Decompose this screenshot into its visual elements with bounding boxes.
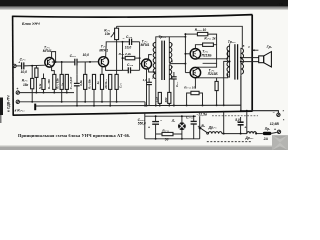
- wire R2-13 right: [199, 93, 202, 105]
- wire R2-8a to bus3: [109, 89, 111, 105]
- junction R2-16/bus1: [66, 92, 68, 94]
- bus1 wire: [20, 92, 74, 94]
- junction lamp bottom: [181, 138, 183, 140]
- resistor R2-13: [191, 91, 199, 94]
- capacitor C2-9: [146, 82, 152, 84]
- wire C2-5 left: [123, 69, 129, 71]
- resistor R under Tr right: [168, 92, 171, 103]
- junction C2-15/choke line: [240, 133, 242, 135]
- wire C2-9 to bus3: [148, 85, 150, 106]
- svg-text:10,0: 10,0: [21, 70, 28, 74]
- svg-text:R₂-₆ 68к: R₂-₆ 68к: [88, 78, 92, 88]
- svg-text:2: 2: [151, 76, 154, 80]
- transformer Tr2-1: [153, 41, 172, 80]
- wire T2-5 emitter to Tr2-2: [198, 63, 217, 68]
- svg-text:R₂-₉ 2,2к: R₂-₉ 2,2к: [119, 52, 132, 56]
- wire choke line: [222, 133, 247, 135]
- svg-text:Тр₂-₂: Тр₂-₂: [228, 40, 236, 44]
- junction C2-10 top: [155, 115, 157, 117]
- wire Tr2-1 primary top: [156, 37, 170, 42]
- wire R2-2 to bus1: [35, 77, 37, 92]
- svg-text:5,1к: 5,1к: [38, 83, 42, 89]
- junction sec/supply: [240, 110, 242, 112]
- wire R2-4 to bus2: [61, 89, 63, 101]
- wire Tr2-1 primary bottom to bus3: [155, 79, 157, 105]
- wire C2-11 top: [193, 116, 195, 121]
- top black scan band: [0, 0, 288, 7]
- pot arrow: [111, 32, 115, 37]
- svg-text:Принципиальная схема блока УНЧ: Принципиальная схема блока УНЧ приемника…: [18, 133, 130, 138]
- wire R2-1 to bus2: [31, 89, 33, 102]
- wire T2-3 collector to Tr2-1: [149, 68, 156, 72]
- resistor R2-1: [31, 78, 34, 88]
- paper background: [0, 0, 288, 150]
- junction R2-10/base line: [184, 33, 186, 35]
- wire R2-7 top from collector: [101, 67, 103, 74]
- left edge black scan mark: [0, 98, 3, 116]
- svg-text:R₂-₁₂: R₂-₁₂: [162, 128, 170, 132]
- potentiometer R2-8 volume: [115, 28, 119, 39]
- svg-text:С₂-₂ 0,047: С₂-₂ 0,047: [69, 76, 73, 89]
- wire T2-4 collector to Tr2-2: [198, 50, 228, 59]
- svg-text:Др₂-₂: Др₂-₂: [244, 136, 254, 140]
- vertical branch wire left of C2-4: [122, 42, 124, 71]
- junction Tr2-2 centre tap: [229, 60, 231, 62]
- svg-text:−: −: [273, 111, 275, 115]
- junction: [255, 133, 257, 135]
- wire right end vertical: [199, 116, 201, 139]
- watermark gray block bottom-right: [272, 135, 288, 150]
- capacitor C2-7: [171, 77, 177, 79]
- loudspeaker Gr1: [259, 52, 272, 67]
- svg-text:+: +: [18, 60, 20, 64]
- vertical branch wire right of C2-4: [139, 42, 141, 71]
- wire C2-1 to base node: [24, 64, 45, 67]
- resistor R2-6: [92, 74, 95, 89]
- resistor R2-10: [197, 32, 207, 35]
- signal wire T2-1 to T2-2: [52, 61, 75, 63]
- wire R2-11 right down: [203, 45, 217, 64]
- wire lamp top: [181, 116, 183, 122]
- svg-text:С₂-₁₁: С₂-₁₁: [186, 115, 193, 119]
- bottom wire of lamp section: [145, 138, 200, 140]
- wire R2-12 right: [173, 133, 182, 135]
- junction R2-6/bus3: [93, 105, 95, 107]
- junction centre tap: [184, 63, 186, 65]
- wire R2-6 to bus3: [93, 89, 95, 105]
- wire lamp bottom: [181, 130, 183, 139]
- junction speaker tap bottom: [240, 61, 242, 63]
- wire Tr2-1 secondary top up: [169, 37, 185, 42]
- wire secondary centre tap: [169, 63, 185, 65]
- svg-text:Блок УНЧ: Блок УНЧ: [22, 22, 40, 26]
- svg-text:С₂-₅: С₂-₅: [127, 63, 134, 67]
- junction emitter line: [55, 61, 57, 63]
- svg-text:680: 680: [164, 97, 168, 102]
- bottom gray scan band: [0, 146, 288, 150]
- wire R2-13 left: [187, 93, 191, 105]
- svg-text:МП41: МП41: [99, 48, 108, 52]
- wire T2-1 collector down: [52, 66, 55, 74]
- wire R2-16 to bus1: [66, 89, 68, 92]
- transistor T2-1: [45, 58, 55, 68]
- svg-text:МП41: МП41: [141, 43, 150, 47]
- junction base T2-2: [89, 61, 91, 63]
- svg-text:1к: 1к: [96, 81, 100, 85]
- svg-text:+: +: [244, 126, 246, 130]
- wire R2-11 left to T2-4 emitter: [195, 45, 202, 49]
- thick junction bar: [34, 104, 36, 111]
- wire C2-15 top: [240, 117, 242, 122]
- wire R2-5 top: [84, 62, 86, 74]
- input terminal X1: [13, 64, 16, 67]
- junction signal/R2-4: [61, 61, 63, 63]
- wire T2-2 collector to C2-4 branch: [106, 66, 123, 71]
- svg-text:4: 4: [170, 59, 173, 63]
- junction C2-7/bus3: [173, 105, 175, 107]
- junction: [168, 105, 170, 107]
- svg-text:220 R₂-₇: 220 R₂-₇: [104, 79, 108, 90]
- junction R2-9 left: [122, 57, 124, 59]
- svg-text:12,6В: 12,6В: [270, 122, 280, 126]
- svg-text:10,0: 10,0: [125, 46, 132, 50]
- wire C2-4 left: [123, 41, 130, 43]
- svg-text:15к: 15к: [23, 83, 29, 87]
- svg-text:+: +: [148, 126, 150, 130]
- svg-text:+: +: [274, 128, 276, 132]
- top gray transition strip: [0, 7, 288, 9]
- wire R to bus3: [168, 103, 170, 105]
- wire R2-10 left: [185, 33, 197, 35]
- junction tap/bus3: [223, 104, 225, 106]
- wire Tr2-2 centre tap to supply line: [224, 61, 230, 105]
- resistor R under Tr left: [158, 92, 161, 103]
- wire supply drop right: [246, 111, 248, 134]
- capacitor C2-2: [74, 83, 80, 85]
- node base T2-1: [31, 65, 33, 67]
- wire C2-15 bottom: [240, 125, 242, 134]
- capacitor C2-11: [191, 121, 197, 124]
- wire Tr2-2 secondary bottom down: [240, 75, 242, 111]
- svg-text:R₂-₁₃ 10: R₂-₁₃ 10: [184, 85, 195, 89]
- wire T2-5 base: [185, 72, 190, 74]
- capacitor C2-3: [75, 59, 77, 66]
- junction R2-7/bus2: [101, 101, 103, 103]
- capacitor C2-15: [238, 122, 244, 125]
- wire speaker top: [241, 57, 259, 59]
- bus2 wire: [20, 101, 145, 103]
- capacitor C2-10: [152, 122, 159, 125]
- wire C2-2 mid: [76, 74, 78, 83]
- wire C2-7 top: [173, 72, 175, 77]
- svg-text:П213Б: П213Б: [208, 72, 219, 76]
- frame right edge: [251, 15, 253, 112]
- resistor R2-11: [203, 43, 214, 46]
- svg-text:10,0: 10,0: [83, 53, 90, 57]
- svg-text:МП41: МП41: [43, 49, 52, 53]
- junction primary/bus3: [155, 105, 157, 107]
- junction R2-5/bus2: [84, 101, 86, 103]
- resistor R2-14: [215, 81, 218, 90]
- wire pot top to top rail: [116, 26, 118, 28]
- wire R2-14 to bus3: [216, 91, 218, 106]
- wire T2-5 down to R2-13: [194, 78, 196, 89]
- capacitor C2-4: [129, 39, 131, 45]
- transistor T2-2: [99, 57, 109, 67]
- wire C2-10 bottom: [155, 124, 157, 139]
- wire R2-14 top: [216, 78, 218, 82]
- wire left drop: [144, 113, 146, 139]
- wire C2-7 to bus3: [173, 79, 175, 106]
- wire R2-9 left: [123, 57, 126, 59]
- junction choke/supply drop: [223, 133, 225, 135]
- svg-text:2А: 2А: [263, 137, 269, 141]
- svg-text:к СДВ-ПЧ: к СДВ-ПЧ: [6, 95, 10, 112]
- wire R2-15 to bus1: [43, 90, 45, 93]
- junction T2-3/bus3: [146, 105, 148, 107]
- junction R2-9 right: [139, 57, 141, 59]
- wire bus2 end down: [144, 102, 146, 106]
- wire T2-1 emitter up: [52, 52, 56, 62]
- svg-text:R₂-₁₀ 10: R₂-₁₀ 10: [195, 28, 207, 32]
- wire C2-11 bottom: [193, 124, 195, 139]
- junction R2-2/bus1: [35, 92, 37, 94]
- capacitor C2-5: [128, 67, 130, 73]
- wire R2-15 top: [43, 74, 45, 79]
- svg-text:-7А: -7А: [277, 1, 284, 6]
- svg-text:Пр₁: Пр₁: [265, 127, 271, 131]
- supply wire right: [241, 111, 279, 113]
- svg-text:С₂-₆: С₂-₆: [118, 83, 122, 88]
- wire R2-5 to bus2: [84, 89, 86, 101]
- wire T2-3 emitter up: [149, 55, 152, 60]
- junction R2-13 right/bus3: [202, 104, 204, 106]
- switch B3: [199, 127, 208, 134]
- wire C2-3 to base T2-2: [77, 61, 98, 63]
- resistor R2-16: [65, 74, 68, 89]
- svg-text:R₂-₃ 680: R₂-₃ 680: [47, 79, 51, 89]
- junction R2-15/bus1: [43, 92, 45, 94]
- wire R2-10 right to Tr2-2: [208, 34, 217, 45]
- junction R2-4/bus2: [61, 101, 63, 103]
- junction R2-3/bus1: [53, 92, 55, 94]
- wire T2-2 emitter up to C2-4 node: [106, 42, 123, 58]
- wire R to bus3: [159, 103, 161, 105]
- lamp L1: [178, 122, 186, 130]
- svg-text:−: −: [123, 37, 125, 41]
- svg-text:к R₁-₁₀: к R₁-₁₀: [15, 108, 26, 112]
- junction R2-8a/bus3: [109, 105, 111, 107]
- inductor Dr2-2: [247, 132, 257, 134]
- terminal X3: [16, 100, 19, 103]
- resistor R2-4: [60, 74, 63, 89]
- base line of output pair: [184, 34, 186, 73]
- svg-text:R₂-₁₁ 1к: R₂-₁₁ 1к: [204, 37, 215, 41]
- frame bottom edge: [13, 111, 252, 115]
- wire branch to base T2-3: [140, 63, 142, 65]
- svg-text:56: 56: [165, 137, 169, 141]
- junction supply right: [246, 110, 248, 112]
- wire junction to R2-4: [61, 62, 63, 74]
- capacitor C2-1: [22, 62, 24, 69]
- junction speaker tap top: [240, 57, 242, 59]
- svg-text:+: +: [16, 87, 18, 91]
- wire R2-9 right: [135, 57, 140, 59]
- transistor T2-5: [190, 67, 200, 77]
- resistor R2-15: [42, 79, 45, 90]
- wire R2-7 to bus2: [101, 89, 103, 101]
- dashed boundary top: [212, 115, 258, 117]
- svg-text:5,1к: 5,1к: [154, 96, 158, 102]
- terminal X2: [16, 91, 19, 94]
- resistor R2-9: [125, 56, 135, 59]
- svg-text:П213Б: П213Б: [202, 53, 213, 57]
- inductor Dr2-1: [208, 132, 222, 134]
- junction R2-1/bus2: [31, 101, 33, 103]
- junction: [159, 105, 161, 107]
- wire C2-10 top: [155, 116, 157, 121]
- junction C2-10 bottom: [155, 138, 157, 140]
- fuse Pr1: [263, 132, 272, 135]
- junction secondary/base line: [184, 36, 186, 38]
- wire T2-5 collector to Tr2-2: [198, 74, 228, 78]
- wire R2-3 to bus1: [53, 89, 55, 92]
- wire C2-5 right: [131, 69, 140, 71]
- resistor R2-2: [35, 68, 38, 77]
- wire C2-2 top: [76, 62, 78, 74]
- svg-text:Л₁: Л₁: [171, 119, 176, 123]
- svg-text:R₂-₄ 6,8к: R₂-₄ 6,8к: [55, 78, 59, 89]
- wire C2-4 right: [132, 41, 140, 43]
- junction bus2/bus3: [144, 105, 146, 107]
- wire speaker bottom: [241, 61, 259, 63]
- svg-text:−12,5в: −12,5в: [196, 112, 207, 116]
- wire input to C2-1: [16, 65, 21, 67]
- wire to fuse: [256, 133, 263, 135]
- svg-text:С₂-₁: С₂-₁: [20, 58, 26, 62]
- transistor T2-4: [190, 49, 200, 59]
- svg-text:R₂-₁: R₂-₁: [22, 79, 28, 83]
- frame left edge: [12, 16, 15, 116]
- wire C2-9 top: [148, 78, 150, 82]
- svg-text:−: −: [160, 118, 162, 122]
- wire secondary bottom down: [168, 79, 170, 92]
- wire fuse to plus terminal: [271, 132, 276, 133]
- top rail wire: [117, 26, 243, 48]
- terminal minus: [277, 113, 280, 116]
- wire Tr2-2 left top: [229, 44, 231, 46]
- svg-text:6,8к: 6,8к: [79, 80, 83, 86]
- arrow mark: [252, 49, 258, 51]
- junction R2-14/bus3: [216, 104, 218, 106]
- transformer Tr2-2: [227, 44, 244, 79]
- svg-text:Гр₁: Гр₁: [267, 45, 273, 49]
- junction C2-11: [193, 115, 195, 117]
- resistor R2-8a: [109, 74, 112, 89]
- junction lamp top: [181, 115, 183, 117]
- wire T2-4 base: [185, 53, 190, 55]
- resistor R2-3: [53, 74, 56, 89]
- junction emitter/C2-4 left: [122, 41, 124, 43]
- lower rail wire: [145, 115, 196, 117]
- svg-text:550,0: 550,0: [138, 122, 146, 126]
- junction C2-2/bus3: [76, 105, 78, 107]
- dashed coupling line: [207, 141, 252, 143]
- transistor T2-3: [142, 59, 152, 69]
- wire R2-12 left: [156, 133, 162, 135]
- terminal plus: [277, 130, 280, 133]
- svg-text:10к: 10к: [105, 32, 111, 36]
- resistor R2-5: [84, 74, 87, 89]
- wire node to R2-1: [31, 66, 33, 79]
- junction T2-4 base: [184, 53, 186, 55]
- wire supply drop: [223, 111, 225, 134]
- wire C2-2 to bus3: [76, 86, 78, 106]
- junction pot/bus2: [116, 101, 118, 103]
- wire pot bottom down: [116, 40, 118, 102]
- resistor R2-7: [100, 74, 103, 89]
- svg-text:С₂-₃: С₂-₃: [70, 54, 77, 58]
- bus3 wire: [36, 104, 241, 107]
- wire R2-2 top: [35, 65, 37, 68]
- svg-text:Др₂-₁: Др₂-₁: [208, 125, 217, 129]
- junction R2-13/bus3: [186, 104, 188, 106]
- svg-text:В₃: В₃: [201, 124, 205, 128]
- wire T2-3 collector down: [146, 69, 148, 106]
- frame of block УНЧ: top edge: [12, 15, 252, 18]
- svg-text:С₂-₄: С₂-₄: [126, 35, 133, 39]
- resistor R2-17 on pot lead: [115, 74, 118, 89]
- resistor R2-12: [162, 132, 173, 135]
